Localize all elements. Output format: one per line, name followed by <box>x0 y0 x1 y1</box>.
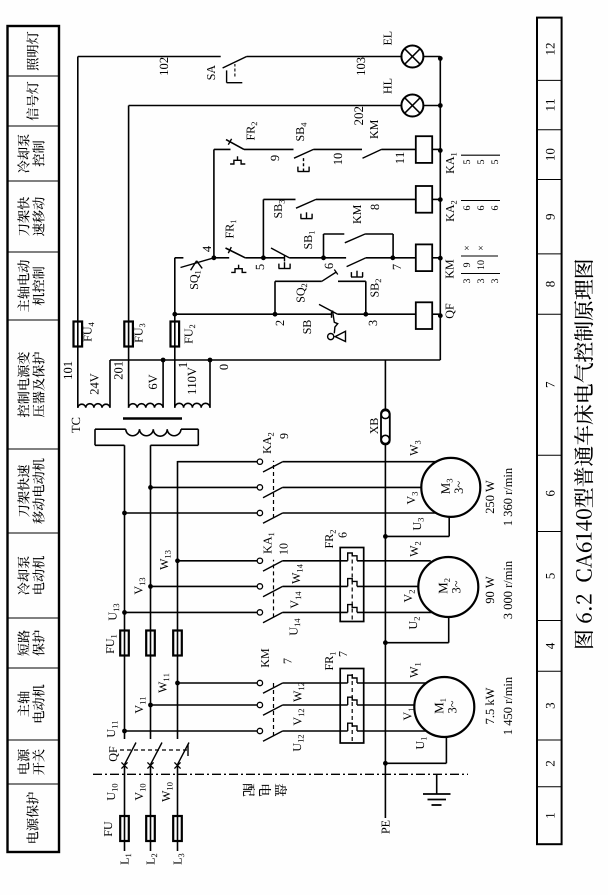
node 7 <box>390 255 401 269</box>
label 24V <box>90 373 98 394</box>
lamp HL (signal lamp) <box>401 95 423 117</box>
title block: circuit-section header strip (12 labelled columns) <box>8 26 60 852</box>
label U2 <box>409 617 419 629</box>
node U12 label <box>293 735 303 751</box>
fuse FU1 (3 fuses, short-circuit protection) <box>120 631 182 656</box>
KM contact usage table <box>461 246 500 283</box>
node W12 label <box>294 683 304 702</box>
label 0 <box>220 364 228 369</box>
node: KA2 branch taps <box>122 485 153 515</box>
label: distribution panel (vertical) <box>243 784 287 797</box>
contactor KM auxiliary contact (self-hold) <box>324 205 394 258</box>
connector XB on PE line <box>381 409 390 444</box>
label FU3 <box>135 324 146 343</box>
label W3 <box>410 441 421 456</box>
label V2 <box>404 590 414 602</box>
label KA1 (coil) <box>446 153 457 174</box>
node U10 label <box>107 784 118 801</box>
transformer TC 6V secondary <box>129 360 164 408</box>
node V11 <box>135 697 153 714</box>
wire: 0 common bus <box>110 358 440 363</box>
label 101 <box>64 362 72 379</box>
wire: EL to 0 rail <box>423 56 440 58</box>
thermal relay FR1 heater box <box>340 669 364 744</box>
wire: M3 frame to PE <box>383 517 449 539</box>
caption: figure title <box>574 260 593 648</box>
label 7 (FR1 column ref) <box>339 651 347 656</box>
label KA2 (coil) <box>446 201 457 222</box>
label QF <box>109 747 119 761</box>
terminal L2 <box>147 854 157 865</box>
KA1 contact usage table <box>461 155 500 164</box>
label V3 <box>407 492 418 504</box>
label KM (coil) <box>446 260 454 279</box>
motor M3 (rapid traverse motor) <box>421 458 480 517</box>
terminal L1 <box>121 854 131 865</box>
label FU4 <box>84 322 94 341</box>
label 102 <box>160 58 168 75</box>
wire: M1 frame to PE <box>383 737 446 766</box>
label W1 <box>410 663 420 678</box>
contactor KA2 main contacts (3-pole) <box>125 459 437 523</box>
node U11 (junction dot + label) <box>107 721 127 737</box>
contactor coil KM <box>393 244 441 271</box>
lamp EL (work light) <box>401 46 423 68</box>
label FR1 (heaters) <box>325 652 335 670</box>
wire: M2 frame to PE <box>383 617 449 645</box>
transformer TC 24V secondary <box>78 360 110 408</box>
transformer TC primary winding <box>126 429 181 436</box>
label TC <box>72 418 80 433</box>
KA2 contact usage table <box>461 201 500 211</box>
fuse FU2 <box>171 322 180 347</box>
transformer TC core <box>123 417 182 420</box>
node 3 <box>363 312 377 326</box>
label XB <box>370 418 378 434</box>
node 10 label <box>334 153 342 164</box>
node 2 <box>273 312 284 326</box>
label U3 <box>413 518 424 530</box>
label 201 <box>114 362 122 380</box>
contactor KA1 main contacts (3-pole) <box>125 558 348 623</box>
relay coil KA1 <box>416 136 441 163</box>
node W14 label <box>292 564 302 584</box>
wire: node 4 to KA1 branch <box>213 149 215 257</box>
label 6 (FR2 column ref) <box>339 532 347 537</box>
wire: three-phase supply bus L1 <box>124 445 126 851</box>
node V12 label <box>294 709 304 726</box>
ground symbol at panel boundary <box>423 774 451 805</box>
node V14 label <box>291 592 301 609</box>
label 202 <box>354 107 363 125</box>
fuse FU3 <box>124 322 133 347</box>
pushbutton SB (emergency stop, NC, mushroom head) <box>303 304 345 341</box>
wires: FR2 to motor M2 <box>357 561 432 613</box>
relay coil KA2 <box>416 186 441 213</box>
label W2 <box>410 542 420 557</box>
node W13 <box>160 550 180 570</box>
label 9 (KA2 contact column ref) <box>280 433 288 438</box>
wire: PE earth line <box>384 360 386 818</box>
wire: node 5 to SB3 branch <box>263 199 295 257</box>
motor M1 (spindle motor) <box>414 677 474 737</box>
wire: SA to lamp EL <box>247 56 403 58</box>
node V13 <box>135 578 153 595</box>
pushbutton SB4 (coolant pump, NO with latch) <box>294 123 362 172</box>
label U1 <box>416 737 426 749</box>
node U14 label <box>290 619 300 636</box>
label M2 rating <box>486 561 512 619</box>
thermal relay FR2 contact (NC) <box>226 122 294 164</box>
transformer TC 110V secondary <box>175 360 210 408</box>
label M3 rating <box>486 468 512 525</box>
label 110V <box>188 367 196 394</box>
motor M2 (coolant pump motor) <box>418 557 478 617</box>
node 5 <box>256 255 266 269</box>
label KA2 (main contacts) <box>263 433 274 454</box>
wire: HL to 0 rail <box>423 105 440 107</box>
wire: bus L2 jog to TC primary <box>151 429 199 445</box>
node 11 label <box>396 153 404 164</box>
label 6V <box>149 375 157 390</box>
wire: 6V signal feed (201/202) <box>129 106 402 408</box>
switch SA (lighting switch) <box>207 57 247 83</box>
wire: 24V lighting feed (101/102) <box>78 57 221 408</box>
breaker release coil QF <box>416 302 441 329</box>
node 6 <box>321 255 333 268</box>
wire: 0 return rail <box>438 56 443 360</box>
label 103 <box>357 57 365 74</box>
column number strip (1-12) <box>537 18 562 845</box>
wire: control branch to QF release coil <box>175 313 416 315</box>
label V1 <box>404 708 414 720</box>
node 9 label <box>271 155 279 160</box>
limit switch SQ2 (bypass branch) <box>275 270 366 315</box>
node 4 <box>203 246 217 260</box>
wire: KA1 branch from node 4 line <box>214 148 231 150</box>
node W10 label <box>162 782 173 802</box>
panel boundary (dash-dot line) <box>93 773 468 775</box>
pushbutton SB2 (start, NO) <box>324 258 393 297</box>
terminal L3 <box>174 854 185 865</box>
wire: 110V control feed (line 1) <box>172 258 177 408</box>
node 8 label <box>371 204 379 209</box>
label HL <box>384 79 392 94</box>
wire: three-phase supply bus L3 <box>177 461 179 851</box>
contactor KM main contacts (3-pole) <box>125 680 348 741</box>
contactor KM auxiliary contact (pump interlock) <box>363 120 416 158</box>
label KA1 (main contacts) <box>264 533 275 554</box>
breaker QF (3-pole switch with linkage) <box>120 743 189 769</box>
node U13 <box>109 604 127 621</box>
pushbutton SB1 (stop, NC) <box>263 231 323 268</box>
thermal relay FR1 contact (NC) <box>214 220 264 272</box>
label PE <box>382 821 390 834</box>
wire: bus L1 jog to TC primary <box>95 429 126 445</box>
limit switch SQ1 (safety interlock) <box>175 258 214 289</box>
label M1 rating <box>485 677 512 734</box>
node W11 <box>159 674 180 693</box>
label EL <box>384 32 392 46</box>
label FR2 (heaters) <box>325 530 335 548</box>
wires: FR1 to motor M1 <box>357 683 426 731</box>
pushbutton SB3 (rapid traverse, NO) <box>274 199 416 218</box>
fuse FU4 <box>74 322 83 347</box>
label 1 <box>179 363 187 367</box>
label QF (coil) <box>446 304 456 318</box>
label FU <box>104 822 112 837</box>
label 7 (KM contact column ref) <box>284 658 292 663</box>
wire: three-phase supply bus L2 <box>150 445 152 851</box>
fuse FU (3-pole main fuses) <box>120 816 182 841</box>
node V10 label <box>135 784 146 801</box>
label FU1 <box>106 635 116 654</box>
label KM (main contacts) <box>261 649 269 668</box>
thermal relay FR2 heater box <box>340 548 364 622</box>
label 10 (KA1 contact column ref) <box>280 543 288 553</box>
label FU2 <box>185 325 195 344</box>
